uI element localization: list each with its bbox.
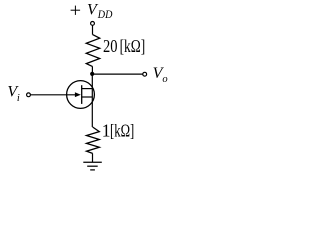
transistor Q1 channel bar: [81, 85, 83, 104]
svg-text:[kΩ]: [kΩ]: [110, 120, 134, 140]
label Vi: [7, 84, 20, 104]
ground: [83, 162, 102, 170]
svg-text:o: o: [162, 74, 167, 85]
value 1 kOhm: [102, 120, 135, 140]
wire VDD to RD: [92, 25, 94, 34]
svg-text:i: i: [17, 93, 20, 104]
wire RS to ground: [92, 153, 94, 162]
svg-text:20: 20: [103, 36, 118, 56]
label Vo: [153, 65, 168, 85]
terminal Vo: [143, 72, 147, 76]
transistor Q1 gate arrow: [75, 92, 81, 97]
wire gate: [31, 94, 76, 96]
resistor RS: [87, 127, 100, 153]
wire channel rail: [91, 74, 93, 127]
wire RD to drain node: [91, 67, 93, 74]
label +VDD: [71, 2, 113, 22]
terminal Vi: [27, 93, 31, 97]
svg-text:DD: DD: [97, 7, 113, 21]
transistor Q1 drain tap: [82, 88, 93, 90]
transistor Q1 body circle: [67, 81, 95, 109]
value 20 kOhm: [103, 36, 145, 56]
svg-text:[kΩ]: [kΩ]: [120, 36, 146, 56]
transistor Q1 source tap: [82, 96, 93, 98]
resistor RD: [86, 35, 99, 67]
wire drain to output: [92, 73, 142, 75]
node drain junction: [90, 72, 94, 76]
terminal VDD: [91, 22, 95, 26]
